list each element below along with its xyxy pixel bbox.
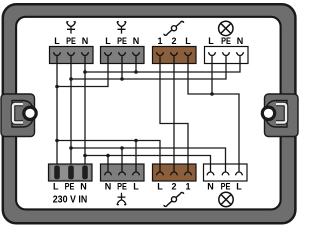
- terminal block T3 (brown switch, top): [153, 47, 197, 64]
- wire switch traveler 2: [173, 64, 175, 165]
- wire B2 stubs: [108, 141, 136, 165]
- svg-text:L: L: [185, 36, 191, 46]
- svg-text:L: L: [54, 36, 60, 46]
- svg-text:N: N: [80, 181, 87, 191]
- box inner area: [16, 17, 281, 210]
- svg-text:N: N: [237, 36, 244, 46]
- svg-text:2: 2: [171, 182, 176, 192]
- wire T2 stubs: [122, 64, 136, 80]
- terminal block B4 (white lamp, bottom): [204, 164, 248, 181]
- svg-text:L: L: [105, 36, 111, 46]
- svg-text:N: N: [82, 36, 89, 46]
- svg-text:L: L: [157, 182, 163, 192]
- terminal block T2 (grey, top): [101, 47, 145, 64]
- svg-text:L: L: [208, 36, 214, 46]
- terminal block T1 (grey, top): [50, 47, 94, 64]
- svg-text:L: L: [133, 182, 139, 192]
- junction dots: [55, 70, 214, 157]
- right latch: [262, 94, 298, 137]
- symbol distribution fork below B2: [117, 193, 126, 205]
- wire N bus bottom: [85, 156, 211, 165]
- wire switch traveler 1: [160, 64, 188, 165]
- wire switched L to lamps: [188, 64, 239, 165]
- terminal block T4 (white lamp, top): [205, 47, 249, 64]
- wire feed L: [56, 64, 58, 168]
- svg-text:1: 1: [157, 36, 162, 46]
- wire PE bus bottom: [71, 148, 226, 164]
- terminal block B1 (grey, 230V feed, bottom): [49, 164, 93, 181]
- symbol lamp below B4: [219, 192, 233, 206]
- terminal block B3 (brown switch, bottom): [153, 164, 197, 181]
- svg-text:PE: PE: [221, 182, 231, 192]
- labels top row: [54, 36, 243, 46]
- symbol two-way switch below B3: [164, 192, 183, 206]
- left latch: [1, 94, 36, 137]
- svg-text:PE: PE: [221, 36, 231, 46]
- left latch clip: [13, 104, 23, 123]
- svg-text:2: 2: [171, 36, 176, 46]
- svg-text:PE: PE: [117, 182, 127, 192]
- wire L bus bottom: [57, 141, 160, 165]
- svg-text:PE: PE: [65, 181, 75, 191]
- terminal block B2 (grey, bottom): [101, 164, 145, 181]
- svg-text:PE: PE: [66, 36, 76, 46]
- right latch clip: [276, 104, 286, 123]
- svg-text:L: L: [236, 182, 242, 192]
- svg-text:230 V IN: 230 V IN: [53, 195, 88, 206]
- wire PE bus top: [71, 64, 226, 80]
- svg-text:L: L: [53, 181, 59, 191]
- svg-text:PE: PE: [117, 36, 127, 46]
- symbol two-way switch above T3: [164, 21, 183, 35]
- symbol lamp above T4: [219, 21, 233, 35]
- wire L link top: [57, 64, 108, 87]
- svg-text:N: N: [105, 182, 112, 192]
- symbol distribution fork above T1: [67, 22, 76, 34]
- svg-text:N: N: [133, 36, 140, 46]
- wire N bus top: [85, 64, 240, 165]
- svg-text:N: N: [207, 182, 214, 192]
- svg-text:1: 1: [185, 182, 190, 192]
- symbol distribution fork above T2: [117, 22, 126, 34]
- wire feed PE: [70, 64, 72, 168]
- labels bottom row: [53, 181, 242, 191]
